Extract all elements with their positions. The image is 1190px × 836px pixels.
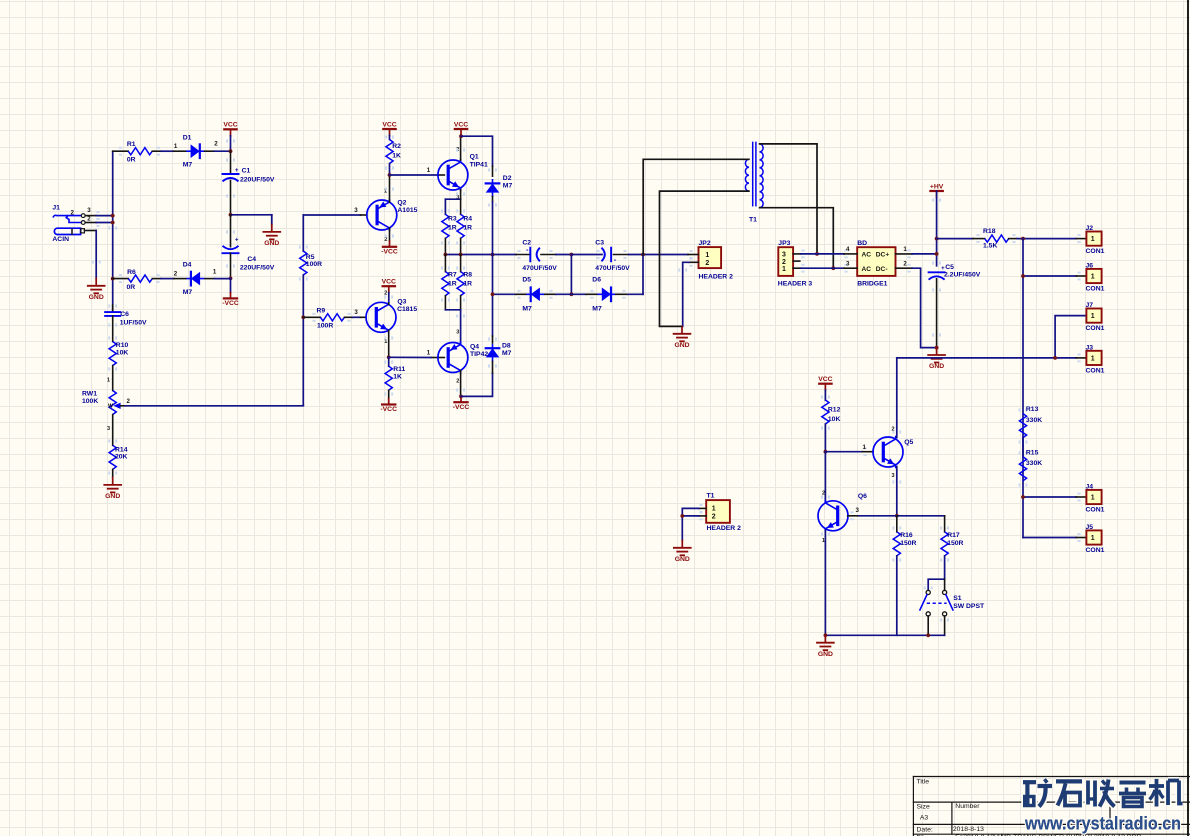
junction R3 out: [444, 253, 448, 257]
wire Q5 emitter down: [896, 467, 898, 516]
svg-text:3: 3: [892, 473, 895, 479]
wire Q5 collector to J3: [897, 354, 1087, 363]
svg-text:GND: GND: [929, 363, 944, 370]
junction D5 left: [491, 292, 495, 296]
svg-text:-VCC: -VCC: [453, 404, 470, 411]
svg-text:VCC: VCC: [382, 279, 396, 286]
junction J6 tap: [1021, 274, 1025, 278]
svg-text:Q6: Q6: [858, 493, 867, 500]
svg-text:2: 2: [903, 261, 907, 268]
resistor R12: [821, 395, 841, 451]
svg-text:A1015: A1015: [397, 207, 417, 214]
wire R18 to J2: [1017, 238, 1076, 240]
header JP2: [688, 240, 733, 280]
svg-text:C2: C2: [522, 240, 531, 247]
svg-text:+: +: [235, 168, 239, 174]
svg-text:C1: C1: [242, 167, 251, 174]
svg-text:Q5: Q5: [904, 439, 913, 446]
svg-text:A3: A3: [920, 815, 929, 822]
svg-text:VCC: VCC: [223, 122, 237, 129]
svg-text:C6: C6: [120, 311, 129, 318]
svg-text:100R: 100R: [306, 261, 322, 268]
wire to J4: [1023, 493, 1086, 502]
power -VCC Q2: [381, 241, 398, 255]
svg-text:2: 2: [71, 210, 75, 217]
switch S1 SW DPST: [920, 579, 985, 635]
svg-text:www.crystalradio.cn: www.crystalradio.cn: [1024, 814, 1181, 834]
diode D2: [486, 166, 513, 207]
wire secondary bottom: [760, 208, 834, 269]
svg-text:470UF/50V: 470UF/50V: [522, 265, 557, 272]
svg-text:J5: J5: [1086, 524, 1094, 531]
capacitor C3: [571, 240, 630, 272]
resistor R15: [1019, 438, 1043, 487]
wire primary bottom: [660, 191, 749, 326]
junction Q1 VCC node: [459, 134, 463, 138]
wire D2 to out row: [492, 202, 494, 255]
power VCC node C1: [223, 122, 237, 152]
wire Q4 node to D8 column: [461, 373, 493, 396]
svg-text:JP2: JP2: [699, 240, 711, 247]
connector J1 audio jack: [52, 205, 96, 243]
wire ground rail: [825, 634, 944, 636]
power -VCC node C4: [222, 278, 239, 307]
svg-text:BD: BD: [857, 240, 867, 247]
wire Q1 collector: [460, 136, 462, 160]
junction J4 tap: [1021, 495, 1025, 499]
resistor R18: [937, 228, 1017, 249]
wire JP3 pin1 to bridge: [801, 267, 844, 269]
svg-text:1: 1: [705, 252, 709, 259]
wire to Q5 base: [825, 447, 873, 456]
resistor R8: [456, 255, 472, 310]
transformer T1 secondary winding: [760, 144, 764, 208]
junction Q4 out: [459, 395, 463, 399]
svg-text:Q4: Q4: [470, 344, 479, 351]
resistor R13: [1019, 406, 1043, 444]
svg-text:-VCC: -VCC: [222, 300, 239, 307]
junction R9 tap: [301, 315, 305, 319]
svg-text:R2: R2: [392, 143, 401, 150]
transformer T1 core: [749, 142, 757, 223]
svg-text:D5: D5: [522, 277, 531, 284]
svg-text:3: 3: [856, 507, 860, 514]
svg-text:J7: J7: [1086, 302, 1094, 309]
svg-text:HEADER 2: HEADER 2: [699, 273, 734, 280]
svg-text:2: 2: [782, 259, 786, 266]
svg-text:JP3: JP3: [778, 240, 790, 247]
svg-text:HEADER 3: HEADER 3: [778, 280, 813, 287]
wire J1 pin2 to left bus: [96, 218, 113, 227]
wire RW1 wiper to R5 bottom: [125, 404, 303, 407]
resistor R7: [441, 255, 457, 310]
svg-text:2: 2: [174, 271, 178, 278]
svg-text:GND: GND: [105, 493, 120, 500]
svg-text:CON1: CON1: [1086, 547, 1105, 554]
ground J1: [88, 278, 105, 301]
wire C3 to JP2 node: [629, 254, 643, 256]
wire R6 to D4: [161, 278, 174, 280]
svg-text:Date:: Date:: [917, 827, 933, 834]
wire R1 to D1: [161, 150, 173, 152]
junction D column out: [491, 253, 495, 257]
svg-text:1K: 1K: [393, 373, 402, 380]
svg-text:1: 1: [863, 444, 867, 451]
wire R9 to Q3 base: [353, 316, 361, 318]
transformer T1 primary winding: [745, 159, 749, 191]
svg-text:1: 1: [712, 505, 716, 512]
svg-text:R6: R6: [127, 269, 136, 276]
svg-text:D6: D6: [592, 277, 601, 284]
junction C1 C4 mid: [229, 213, 233, 217]
wire mid node to ground: [231, 215, 272, 225]
junction ground rail: [824, 633, 828, 637]
wire to J7: [1055, 316, 1086, 358]
svg-text:3: 3: [354, 309, 358, 316]
svg-text:1R: 1R: [463, 280, 472, 287]
svg-text:R11: R11: [393, 366, 405, 373]
svg-text:2: 2: [127, 398, 131, 405]
svg-text:Number: Number: [955, 803, 980, 810]
resistor R17: [940, 516, 963, 579]
svg-text:J2: J2: [1086, 225, 1094, 232]
svg-text:1: 1: [107, 378, 110, 384]
connector J2: [1076, 225, 1104, 255]
svg-text:2: 2: [384, 237, 387, 243]
svg-text:220UF/50V: 220UF/50V: [240, 176, 275, 183]
svg-text:M7: M7: [503, 183, 513, 190]
svg-text:TIP42: TIP42: [470, 351, 488, 358]
junction JP2 node: [641, 253, 645, 257]
svg-text:TIP41: TIP41: [470, 161, 488, 168]
wire JP3 pin3 to bridge: [801, 253, 844, 255]
potentiometer RW1: [82, 378, 131, 433]
svg-text:GND: GND: [264, 240, 279, 247]
wire bridge DC- down: [912, 268, 936, 347]
connector J7: [1086, 302, 1105, 332]
svg-text:BRIDGE1: BRIDGE1: [857, 280, 887, 287]
svg-text:R8: R8: [463, 272, 472, 279]
svg-text:3: 3: [107, 426, 110, 432]
svg-text:2: 2: [705, 260, 709, 267]
header T1 HEADER 2: [699, 492, 741, 532]
svg-text:220UF/50V: 220UF/50V: [240, 265, 275, 272]
svg-text:R9: R9: [317, 308, 326, 315]
svg-text:J4: J4: [1086, 483, 1094, 490]
svg-text:0R: 0R: [127, 157, 136, 164]
svg-text:1: 1: [782, 266, 786, 273]
svg-text:RW1: RW1: [82, 391, 97, 398]
junction Q1 base node: [388, 173, 392, 177]
junction J1 pin2 bus: [111, 221, 115, 225]
transistor Q5: [863, 426, 914, 479]
svg-text:R15: R15: [1026, 449, 1039, 456]
junction J1 pin3 bus: [111, 214, 115, 218]
resistor R9: [303, 308, 352, 330]
capacitor C2: [516, 240, 557, 272]
ground C5: [928, 348, 945, 371]
wire mid column: [570, 255, 572, 295]
wire Q4 collector down: [460, 371, 462, 397]
svg-text:3: 3: [846, 261, 850, 268]
resistor R4: [456, 199, 472, 254]
svg-text:CON1: CON1: [1086, 325, 1105, 332]
ground JP2: [674, 326, 691, 349]
power +HV: [930, 183, 944, 197]
ground T1 header: [674, 540, 691, 563]
transistor Q3 C1815: [354, 290, 417, 345]
resistor R2: [385, 135, 401, 175]
junction mid top: [570, 253, 574, 257]
wire bridge DC+ to HV column: [912, 253, 936, 255]
wire output row: [445, 254, 516, 256]
svg-text:VCC: VCC: [454, 121, 468, 128]
svg-text:20K: 20K: [115, 454, 128, 461]
wire Q2 emitter up: [389, 175, 391, 202]
svg-text:W: W: [108, 404, 113, 410]
resistor R5: [299, 215, 322, 405]
svg-text:AC: AC: [862, 251, 872, 258]
diode D6: [571, 277, 628, 313]
svg-text:330K: 330K: [1026, 417, 1042, 424]
junction S1 rail: [926, 633, 930, 637]
svg-text:VCC: VCC: [818, 376, 832, 383]
svg-text:1: 1: [1091, 535, 1095, 542]
svg-text:Q1: Q1: [470, 154, 479, 161]
svg-text:SW DPST: SW DPST: [953, 603, 985, 610]
svg-text:3: 3: [354, 207, 358, 214]
junction C4 D4 node: [229, 277, 233, 281]
svg-text:3: 3: [456, 330, 459, 336]
junction J7 J3 node: [1053, 356, 1057, 360]
diode D5: [493, 277, 557, 313]
diode D1: [174, 135, 219, 169]
svg-text:1: 1: [213, 269, 217, 276]
junction C5 ground node: [935, 346, 939, 350]
svg-text:C4: C4: [247, 256, 256, 263]
svg-text:4: 4: [846, 246, 850, 253]
svg-text:M7: M7: [183, 162, 193, 169]
svg-text:GND: GND: [818, 651, 833, 658]
svg-text:J6: J6: [1086, 262, 1094, 269]
svg-text:+HV: +HV: [930, 183, 944, 190]
svg-text:-VCC: -VCC: [381, 248, 398, 255]
transistor Q1 TIP41: [427, 147, 488, 201]
svg-text:DC+: DC+: [876, 251, 890, 258]
ground mid rail: [263, 225, 280, 248]
wire Q5 collector up to J3 row: [896, 358, 898, 438]
svg-text:R10: R10: [116, 342, 129, 349]
svg-text:R7: R7: [448, 272, 457, 279]
svg-text:470UF/50V: 470UF/50V: [595, 265, 630, 272]
svg-text:2.2UF/450V: 2.2UF/450V: [944, 272, 981, 279]
svg-text:100K: 100K: [82, 398, 98, 405]
resistor R10: [108, 336, 128, 379]
junction R12 Q5 base node: [824, 450, 828, 454]
svg-text:R14: R14: [115, 446, 128, 453]
svg-text:R18: R18: [983, 228, 996, 235]
connector J3: [1086, 344, 1105, 374]
junction secondary top JP3: [815, 252, 819, 256]
svg-text:M7: M7: [592, 305, 602, 312]
bridge rectifier BD: [844, 240, 912, 287]
svg-text:T1: T1: [707, 492, 715, 499]
diode D8: [486, 336, 512, 373]
svg-text:1.5K: 1.5K: [983, 243, 997, 250]
wire secondary top: [760, 144, 817, 254]
svg-text:-VCC: -VCC: [380, 406, 397, 413]
wire VCC node to D2 column: [461, 136, 493, 166]
svg-text:3: 3: [87, 207, 91, 214]
wire JP2 node down to D6: [642, 255, 644, 295]
connector J4: [1086, 483, 1105, 513]
wire JP2 pin2 to ground: [683, 262, 689, 326]
junction mid bottom: [570, 292, 574, 296]
svg-text:R17: R17: [947, 532, 960, 539]
wire primary top: [643, 159, 749, 254]
svg-text:1: 1: [174, 143, 178, 150]
pin markers transistors: [92, 139, 941, 535]
svg-text:AC: AC: [862, 266, 872, 273]
svg-text:+: +: [235, 238, 239, 244]
wire Q3 collector: [388, 303, 390, 305]
svg-text:DC-: DC-: [876, 266, 888, 273]
transistor Q2 A1015: [354, 188, 417, 243]
wire left bus: [112, 151, 114, 311]
svg-text:2: 2: [712, 514, 716, 521]
svg-text:Size: Size: [917, 804, 930, 811]
svg-text:ACIN: ACIN: [52, 236, 69, 243]
junction Q5 emitter node: [895, 514, 899, 518]
svg-text:100R: 100R: [317, 323, 333, 330]
svg-text:2: 2: [456, 379, 459, 385]
wire to J6: [1023, 272, 1086, 281]
wire Q6 collector up: [824, 452, 826, 502]
junction Q3 emitter node: [387, 355, 391, 359]
svg-text:CON1: CON1: [1086, 248, 1105, 255]
svg-text:T1: T1: [749, 217, 757, 224]
connector J6: [1086, 262, 1105, 292]
svg-text:HEADER 2: HEADER 2: [707, 525, 742, 532]
svg-text:J1: J1: [52, 205, 60, 212]
transistor Q4 TIP42: [427, 330, 489, 385]
svg-text:1: 1: [427, 167, 431, 174]
junction T1 ground wire: [680, 514, 684, 518]
svg-text:2: 2: [214, 141, 218, 148]
wire D6 to JP2 column: [628, 293, 643, 295]
svg-text:C3: C3: [595, 240, 604, 247]
resistor R1: [113, 141, 162, 164]
wire C2 to mid column: [556, 254, 571, 256]
svg-text:1R: 1R: [448, 280, 457, 287]
svg-text:10K: 10K: [116, 349, 129, 356]
junction R4 out: [459, 253, 463, 257]
svg-text:1: 1: [903, 246, 907, 253]
wire D4 to C4 node: [214, 278, 230, 280]
svg-text:M7: M7: [183, 289, 193, 296]
junction VCC C1 node: [229, 149, 233, 153]
svg-text:CON1: CON1: [1086, 367, 1105, 374]
svg-text:0R: 0R: [127, 284, 136, 291]
svg-text:CON1: CON1: [1086, 506, 1105, 513]
svg-text:D8: D8: [502, 343, 511, 350]
capacitor C4: [223, 215, 275, 279]
wire node to JP2 pin1: [643, 254, 688, 256]
svg-text:1: 1: [1091, 274, 1095, 281]
resistor R11: [384, 357, 405, 399]
svg-text:J3: J3: [1086, 344, 1094, 351]
svg-text:10K: 10K: [828, 416, 841, 423]
svg-text:1UF/50V: 1UF/50V: [120, 320, 147, 327]
wire R7R8 bottom jog: [445, 310, 460, 345]
power VCC R12: [818, 376, 832, 400]
svg-text:VCC: VCC: [382, 121, 396, 128]
wire D5 to mid column: [556, 293, 571, 295]
svg-text:GND: GND: [674, 342, 689, 349]
svg-text:R16: R16: [900, 532, 913, 539]
wire D1 to C1 node: [215, 150, 231, 152]
svg-text:150R: 150R: [947, 540, 963, 547]
svg-text:R1: R1: [127, 141, 136, 148]
resistor R16: [892, 516, 916, 636]
ground R14: [104, 478, 121, 501]
sheet border right edge: [1187, 0, 1189, 836]
power -VCC R11: [380, 399, 397, 413]
svg-text:M7: M7: [522, 305, 532, 312]
wire Q3 to Q4 base: [389, 356, 431, 358]
junction bridge DC+ node: [935, 252, 939, 256]
wire node to R16 R17: [897, 515, 945, 517]
svg-text:CON1: CON1: [1086, 285, 1105, 292]
svg-text:R5: R5: [306, 254, 315, 261]
svg-text:330K: 330K: [1026, 460, 1042, 467]
wire to Q1 base: [390, 174, 439, 176]
power VCC Q1: [454, 121, 468, 136]
svg-text:1: 1: [1091, 356, 1095, 363]
capacitor C5: [929, 261, 981, 347]
svg-text:S1: S1: [953, 595, 962, 602]
svg-text:M7: M7: [502, 350, 512, 357]
transistor Q6: [818, 491, 867, 544]
svg-text:1R: 1R: [463, 224, 472, 231]
wire Q6 base to node: [859, 515, 897, 517]
svg-text:1R: 1R: [448, 224, 457, 231]
header JP3: [778, 240, 813, 287]
ground rail: [817, 635, 834, 658]
resistor R3: [441, 199, 457, 254]
svg-text:R13: R13: [1026, 406, 1039, 413]
junction secondary bottom JP3: [831, 266, 835, 270]
wire T1 pins to ground: [682, 508, 699, 540]
wire R5 top to Q2 base: [303, 214, 360, 216]
svg-text:D4: D4: [183, 261, 192, 268]
junction R6 bus: [111, 277, 115, 281]
svg-text:Title: Title: [917, 779, 930, 786]
junction right column top: [1021, 237, 1025, 241]
svg-text:GND: GND: [675, 556, 690, 563]
title block: [913, 777, 1190, 836]
svg-text:GND: GND: [89, 294, 104, 301]
capacitor C6: [105, 304, 147, 341]
connector J5: [1086, 524, 1105, 554]
svg-text:Q3: Q3: [397, 298, 406, 305]
svg-text:1: 1: [1091, 313, 1095, 320]
svg-text:3: 3: [456, 195, 459, 201]
svg-text:R12: R12: [828, 406, 841, 413]
wire Q6 emitter down: [824, 530, 826, 635]
watermark crystalradio logo: [1023, 779, 1183, 834]
svg-text:2018-8-13: 2018-8-13: [953, 826, 984, 833]
